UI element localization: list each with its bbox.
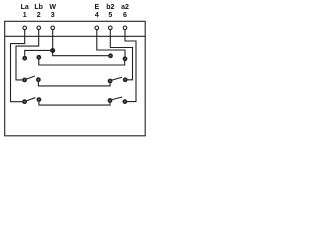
svg-text:b2: b2 — [106, 4, 114, 11]
wire from S3 contact B to contact R3a — [39, 102, 110, 105]
terminal label La — [21, 4, 29, 19]
branch wire from node J1 to contact dot1 — [25, 50, 53, 55]
terminal 5 stub — [109, 29, 111, 36]
terminal label a2 — [121, 4, 129, 19]
contact R1b — [123, 56, 128, 61]
terminal strip bottom line — [5, 35, 146, 37]
terminal 1 stub — [24, 29, 26, 36]
svg-text:W: W — [49, 4, 56, 11]
terminal 3 circle — [51, 26, 55, 30]
switch S4 arm — [112, 77, 122, 80]
svg-text:5: 5 — [108, 12, 112, 19]
wire from terminal 6 to contact R3b — [125, 36, 136, 101]
wire from S2 contact B to contact R2a — [38, 82, 110, 86]
terminal label b2 — [106, 4, 114, 19]
terminal 6 stub — [124, 29, 126, 36]
switch S2 contact B — [36, 77, 41, 82]
enclosure box — [5, 21, 146, 136]
wire from terminal 5 to contact R2b — [110, 36, 132, 80]
terminal label W — [49, 4, 56, 19]
switch S1 contact dot2 — [36, 55, 41, 60]
switch S2 arm — [26, 76, 35, 79]
terminal label Lb — [34, 4, 43, 19]
svg-text:La: La — [21, 4, 29, 11]
terminal 6 circle — [123, 26, 127, 30]
wire from terminal 4 to contact R1b — [97, 36, 125, 56]
svg-text:2: 2 — [37, 12, 41, 19]
svg-text:6: 6 — [123, 12, 127, 19]
contact R3a — [108, 98, 113, 103]
terminal 4 circle — [95, 26, 99, 30]
contact R2b — [123, 77, 128, 82]
switch S3 contact B — [37, 97, 42, 102]
svg-text:Lb: Lb — [34, 4, 43, 11]
terminal 5 circle — [109, 26, 113, 30]
switch S2 contact A — [22, 78, 27, 83]
svg-text:E: E — [94, 4, 99, 11]
terminal label E — [94, 4, 99, 19]
terminal 3 stub — [52, 29, 54, 36]
switch S1 contact dot1 — [22, 56, 27, 61]
switch S3 contact A — [22, 99, 27, 104]
svg-text:1: 1 — [23, 12, 27, 19]
terminal 2 stub — [38, 29, 40, 36]
switch S5 arm — [112, 97, 122, 100]
contact R3b — [123, 99, 128, 104]
svg-text:3: 3 — [51, 12, 55, 19]
wire from terminal 1 to switch S3 contact — [11, 36, 25, 101]
wire from contact dot2 down and right up to contact R1b — [39, 59, 125, 65]
contact R1a — [108, 53, 113, 58]
terminal 1 circle — [23, 26, 27, 30]
node J1 junction dot — [50, 48, 55, 53]
contact R2a — [108, 79, 113, 84]
wire from terminal 3 down and right to contact R1a — [53, 36, 109, 55]
svg-text:a2: a2 — [121, 4, 129, 11]
terminal 2 circle — [37, 26, 41, 30]
terminal 4 stub — [96, 29, 98, 36]
switch S3 arm — [26, 98, 35, 101]
svg-text:4: 4 — [95, 12, 99, 19]
wire from terminal 2 to switch S2 contact — [16, 36, 39, 80]
